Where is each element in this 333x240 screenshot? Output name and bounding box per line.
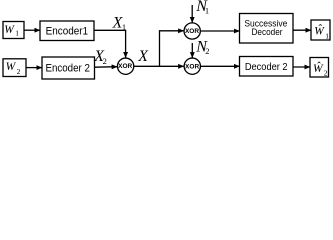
wire N1 into XOR B xyxy=(191,5,193,23)
xor B (adder of X,N1) xyxy=(184,23,200,39)
block Encoder 2 xyxy=(42,57,95,79)
wire branch up to XOR B xyxy=(160,31,184,67)
svg-text:Ŵ: Ŵ xyxy=(313,61,324,75)
wire Encoder1 to XOR A (elbow down) xyxy=(94,30,126,57)
box W1hat xyxy=(311,20,330,41)
svg-text:2: 2 xyxy=(17,67,21,76)
wire Decoder 2 to W2hat xyxy=(293,66,310,68)
wire XOR A to XOR C xyxy=(134,65,184,67)
block Encoder1 xyxy=(40,21,94,41)
wire C to Decoder 2 xyxy=(201,65,240,67)
svg-text:XOR: XOR xyxy=(118,63,132,70)
label N2 xyxy=(195,38,209,56)
svg-text:W: W xyxy=(6,61,17,73)
svg-text:2: 2 xyxy=(205,46,209,56)
svg-text:1: 1 xyxy=(122,22,126,32)
svg-text:XOR: XOR xyxy=(185,64,199,71)
wire W2 to Encoder 2 xyxy=(26,67,42,69)
box W2hat xyxy=(310,58,329,78)
label X2 xyxy=(93,48,107,66)
svg-text:Encoder1: Encoder1 xyxy=(46,26,89,38)
block Successive Decoder xyxy=(240,14,294,44)
svg-text:Ŵ: Ŵ xyxy=(314,23,325,37)
svg-text:1: 1 xyxy=(15,29,19,38)
label N1 xyxy=(195,0,209,16)
svg-text:1: 1 xyxy=(325,32,329,41)
xor C (adder of X,N2) xyxy=(184,58,200,74)
svg-text:XOR: XOR xyxy=(185,28,199,35)
svg-text:2: 2 xyxy=(103,56,107,66)
svg-text:Encoder 2: Encoder 2 xyxy=(45,62,90,74)
svg-text:2: 2 xyxy=(324,69,328,78)
svg-text:X: X xyxy=(137,48,149,65)
wire Encoder 2 to XOR A xyxy=(95,66,118,69)
box W2 xyxy=(3,59,26,77)
wire N2 into XOR C xyxy=(191,43,193,58)
svg-text:1: 1 xyxy=(205,6,209,16)
wire W1 to Encoder1 xyxy=(24,29,40,31)
label X1 xyxy=(112,14,127,32)
svg-text:Decoder: Decoder xyxy=(252,27,283,38)
svg-text:W: W xyxy=(4,24,15,36)
wire Successive Decoder to W1hat xyxy=(293,29,311,31)
box W1 xyxy=(3,22,24,39)
block Decoder 2 xyxy=(240,57,294,77)
svg-text:Decoder 2: Decoder 2 xyxy=(245,62,288,73)
xor A (adder of X1,X2) xyxy=(117,58,133,74)
wire XOR B to Successive Decoder xyxy=(201,30,240,32)
